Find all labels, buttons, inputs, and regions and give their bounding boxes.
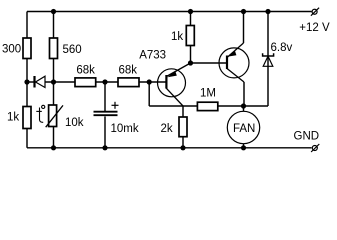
- diode D1 (between divider columns) cathode bar: [33, 76, 35, 88]
- transistor Q1 emitter arrow: [168, 71, 177, 77]
- svg-text:A733: A733: [139, 50, 166, 62]
- terminal +12V (circle with slash): [311, 8, 319, 16]
- svg-text:68k: 68k: [119, 65, 138, 77]
- resistor 1k (pullup top): [186, 26, 194, 46]
- junction fan top x=243.5 y=106: [241, 103, 246, 108]
- junction top rail x=190.5: [188, 9, 193, 14]
- junction top rail x=243.5: [241, 9, 246, 14]
- svg-text:1k: 1k: [171, 31, 183, 43]
- thermistor 10k diagonal stroke: [46, 105, 63, 127]
- svg-text:10k: 10k: [65, 117, 84, 129]
- wire capacitor branch x=105: [104, 82, 106, 111]
- junction emitter node x=190.5 y=63: [188, 60, 193, 65]
- capacitor 10mk plate top: [94, 111, 118, 113]
- junction gnd rail x=53.5: [51, 145, 56, 150]
- resistor 560: [50, 38, 58, 59]
- resistor 1M: [197, 102, 217, 110]
- transistor Q1 base bar: [165, 75, 167, 89]
- wire 1k pullup column x=190.5: [190, 12, 192, 26]
- wire emitter node to Q2 base y=63: [191, 62, 228, 64]
- transistor Q1 collector lead: [166, 88, 183, 106]
- svg-text:GND: GND: [294, 131, 320, 143]
- svg-text:2k: 2k: [161, 123, 173, 135]
- thermistor 10k body: [49, 105, 57, 127]
- resistor 68k (first): [75, 78, 96, 87]
- label t° thermistor: [36, 105, 45, 122]
- svg-text:300: 300: [2, 44, 21, 56]
- wire FAN stubs: [243, 106, 245, 111]
- transistor Q2 base bar: [226, 56, 228, 70]
- junction top rail x=268: [265, 9, 270, 14]
- resistor 68k (second): [118, 78, 139, 87]
- wire top +12V rail: [27, 11, 312, 13]
- diode D1 triangle: [36, 76, 46, 87]
- wire column x=53.5 (rail to R560, R560 to node, node to thermistor, thermistor to gnd): [53, 12, 55, 39]
- wire feedback net y=106 (base node down and across to 1M): [148, 82, 150, 106]
- junction top rail x=53.5: [51, 9, 56, 14]
- junction gnd rail x=183: [180, 145, 185, 150]
- transistor Q1 A733 circle: [158, 69, 186, 97]
- zener diode 6.8v triangle: [263, 56, 273, 66]
- svg-text:FAN: FAN: [233, 123, 255, 135]
- svg-text:1M: 1M: [200, 88, 216, 100]
- terminal GND (circle with slash): [311, 144, 319, 152]
- resistor 2k: [179, 117, 187, 137]
- junction capacitor tap x=105 y=82: [102, 79, 107, 84]
- capacitor polarity plus sign: [112, 102, 119, 109]
- resistor 300: [23, 38, 31, 59]
- junction base node x=149.2 y=82: [147, 79, 152, 84]
- junction divider x=53.5 y=82: [51, 79, 56, 84]
- svg-text:1k: 1k: [7, 112, 19, 124]
- svg-text:560: 560: [63, 44, 82, 56]
- transistor Q1 emitter lead: [166, 63, 190, 77]
- motor FAN circle: [227, 111, 259, 143]
- transistor Q2 collector lead: [227, 69, 244, 83]
- zener diode 6.8v cathode bar with ticks: [263, 53, 274, 56]
- junction gnd rail x=243.5: [241, 145, 246, 150]
- wire 2k branch x=183: [182, 106, 184, 117]
- transistor Q2 circle: [219, 48, 249, 78]
- svg-text:+12 V: +12 V: [299, 22, 330, 34]
- transistor Q2 emitter lead: [227, 43, 244, 58]
- wire zener column x=268: [267, 12, 269, 107]
- wire divider net y=82: [27, 81, 34, 83]
- junction divider left x=27 y=82: [24, 79, 29, 84]
- capacitor 10mk plate bottom: [94, 114, 118, 116]
- wire Q2 collector column x=244: [243, 82, 245, 106]
- transistor Q2 emitter arrow: [228, 50, 237, 56]
- svg-text:10mk: 10mk: [111, 123, 139, 135]
- wire left column x=27 (rail to R300, R300 to node, node to R1k, R1k to gnd): [26, 12, 28, 39]
- svg-text:68k: 68k: [76, 65, 95, 77]
- wire bottom GND rail: [27, 147, 312, 149]
- resistor 1k (left lower): [23, 107, 31, 129]
- wire Q2 emitter column x=243.5: [243, 12, 245, 44]
- svg-text:6.8v: 6.8v: [271, 42, 293, 54]
- junction gnd rail x=105: [102, 145, 107, 150]
